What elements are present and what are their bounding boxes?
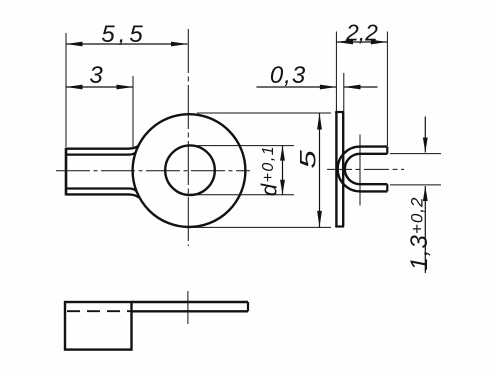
- svg-text:3: 3: [89, 62, 103, 89]
- bottom view vertical centerline: [187, 291, 189, 324]
- bottom view hidden edge dashed line: [67, 310, 131, 312]
- svg-text:5: 5: [296, 150, 320, 169]
- dim 3 extension line right: [132, 76, 134, 149]
- dim 1,3+0,2 lower arrowhead: [423, 186, 428, 201]
- dim 5,5 right arrowhead: [171, 42, 188, 47]
- tail inner bottom edge: [66, 189, 136, 191]
- tail outer bottom edge: [66, 194, 139, 197]
- side view U-bend outer contour: [338, 147, 388, 192]
- dim 5,5 line: [66, 43, 188, 45]
- bottom view strip top edge: [132, 301, 249, 303]
- svg-text:1,3+0,2: 1,3+0,2: [406, 197, 433, 271]
- dim 0,3 right extension line: [343, 73, 345, 112]
- dim 2,2 left extension line: [335, 32, 337, 113]
- dim 5 top extension line: [197, 112, 331, 114]
- side view horizontal centerline: [327, 168, 404, 170]
- front view: outer disc circle: [133, 114, 246, 227]
- dim 1,3+0,2 top extension line: [390, 153, 441, 155]
- dim 1,3+0,2 lower shaft: [424, 186, 426, 273]
- dim 5 top arrowhead: [317, 113, 322, 130]
- bottom view strip right end cap: [247, 302, 249, 311]
- dim d+0,1 line: [282, 146, 284, 195]
- side view U-bend inner contour: [345, 154, 387, 184]
- dim 2,2 left arrowhead: [337, 40, 354, 45]
- dim d+0,1 bottom arrowhead: [280, 180, 285, 195]
- front view vertical centerline: [187, 29, 189, 246]
- front view horizontal centerline: [56, 170, 250, 172]
- side view strip right edge: [342, 112, 344, 227]
- dim 5 bottom arrowhead: [317, 211, 322, 228]
- dim 3 right arrowhead: [117, 85, 134, 90]
- dim 1,3+0,2 upper arrowhead: [423, 138, 428, 153]
- dim d+0,1 bottom extension line: [191, 194, 294, 196]
- svg-text:5,5: 5,5: [101, 21, 146, 48]
- dim 5 bottom extension line: [189, 226, 331, 228]
- tail left end cap: [65, 148, 68, 196]
- dim 5,5 left arrowhead: [66, 42, 83, 47]
- side view strip bottom cap: [335, 225, 344, 227]
- dim d+0,1 top extension line: [191, 145, 294, 147]
- tail outer top edge: [66, 146, 139, 149]
- side view strip top cap: [335, 111, 344, 113]
- tail inner top edge: [66, 152, 136, 154]
- dim 2,2 right arrowhead: [371, 40, 388, 45]
- dim 1,3+0,2 bottom extension line: [390, 184, 441, 186]
- side view U-bend bottom end cap: [386, 184, 388, 191]
- side view strip left edge: [335, 112, 337, 227]
- side view U-bend top end cap: [386, 147, 388, 154]
- dim 5,5 extension line left: [65, 33, 67, 147]
- svg-text:0,3: 0,3: [270, 62, 306, 89]
- dim 3 line: [66, 86, 133, 88]
- bottom view tube box: [65, 302, 132, 350]
- svg-text:d+0,1: d+0,1: [257, 145, 282, 196]
- dim 0,3 right line with left-pointing arrowhead: [344, 86, 378, 88]
- dim 2,2 right extension line: [386, 32, 388, 147]
- side view bend tangent thin line: [359, 135, 361, 206]
- dim 1,3+0,2 upper shaft: [424, 117, 426, 153]
- dim 0,3 left line with right-pointing arrowhead: [257, 86, 337, 88]
- front view: center hole circle d: [165, 145, 215, 195]
- bottom view strip bottom edge: [132, 310, 249, 312]
- dim 3 left arrowhead: [66, 85, 83, 90]
- svg-text:2,2: 2,2: [345, 20, 378, 46]
- dim 2,2 line: [337, 41, 388, 43]
- dim 5 line: [319, 113, 321, 227]
- dim d+0,1 top arrowhead: [280, 146, 285, 161]
